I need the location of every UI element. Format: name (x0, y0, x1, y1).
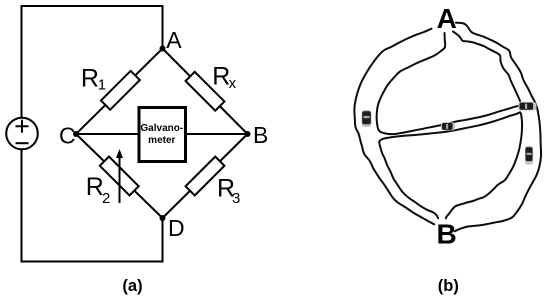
galvanometer G (139, 108, 186, 162)
wire galvanometer-B (187, 133, 248, 135)
road inner-right edge upper (A to right junction) (453, 32, 520, 102)
voltage source V1 (6, 118, 38, 150)
resistor R1 (101, 71, 140, 110)
label R3 (217, 175, 240, 207)
svg-text:(b): (b) (438, 277, 459, 295)
wire bottom loop: source bottom to node D (22, 150, 163, 262)
svg-text:B: B (253, 122, 268, 148)
road inner-left edge upper from A into middle road upper edge (377, 33, 519, 134)
car 3 (right junction, horizontal) (518, 102, 536, 110)
resistor R3 (186, 157, 225, 196)
svg-text:(a): (a) (122, 277, 142, 295)
road inner-right edge lower (right junction to B) (446, 114, 522, 219)
car 4 (right lane lower, vertical) (525, 146, 533, 165)
node D junction dot (160, 215, 166, 221)
label R2 (86, 173, 111, 207)
wire C-D (76, 134, 163, 218)
wire C-galvanometer (76, 133, 138, 135)
resistor R2 (variable) (100, 157, 139, 196)
svg-text:R: R (81, 64, 99, 92)
car 1 (left lane, vertical) (362, 110, 372, 127)
svg-text:A: A (166, 27, 182, 53)
svg-text:B: B (437, 219, 457, 250)
svg-text:1: 1 (98, 77, 106, 94)
svg-text:3: 3 (232, 190, 240, 207)
wire top loop: source top to node A (22, 6, 163, 118)
R2 wiper arrow (116, 149, 123, 203)
middle road lower edge into road inner-left edge lower to B (379, 112, 520, 218)
svg-text:C: C (59, 123, 76, 149)
svg-text:A: A (437, 3, 457, 34)
svg-text:Galvano-: Galvano- (140, 123, 183, 134)
svg-text:D: D (168, 215, 185, 241)
wire D-B (163, 134, 248, 218)
label R1 (81, 64, 106, 93)
label Rx (212, 63, 236, 92)
svg-text:2: 2 (102, 190, 110, 207)
wire A-C (76, 49, 163, 135)
node C junction dot (73, 131, 79, 137)
node A junction dot (160, 46, 166, 52)
resistor Rx (186, 72, 225, 111)
wire A-B (163, 49, 248, 135)
node B junction dot (245, 131, 251, 137)
svg-text:meter: meter (148, 135, 175, 146)
svg-text:x: x (229, 75, 237, 92)
road outer-right edge A to B (455, 23, 541, 232)
road outer-left edge A to B (354, 29, 434, 225)
car 2 (middle road, horizontal) (441, 122, 455, 130)
